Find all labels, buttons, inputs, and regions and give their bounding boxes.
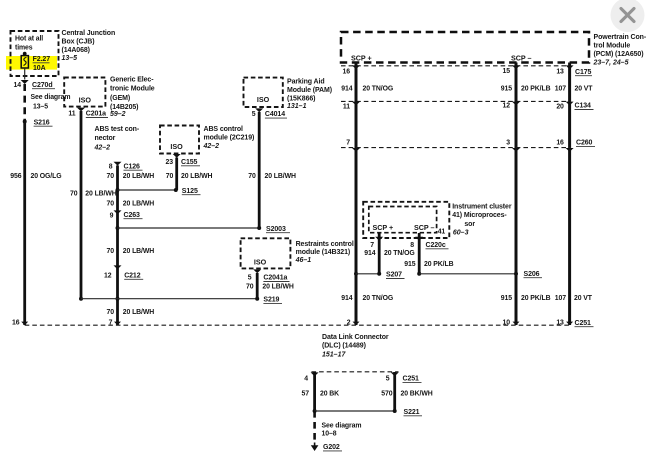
svg-text:20 LB/WH: 20 LB/WH bbox=[265, 173, 296, 180]
splice S216 bbox=[23, 119, 53, 126]
svg-text:Module (PAM): Module (PAM) bbox=[287, 87, 332, 94]
svg-text:70: 70 bbox=[248, 173, 256, 180]
svg-text:11: 11 bbox=[343, 103, 350, 110]
label Parking Aid Module (PAM) bbox=[287, 78, 332, 109]
svg-text:11: 11 bbox=[68, 111, 75, 118]
svg-text:20 PK/LB: 20 PK/LB bbox=[521, 295, 551, 302]
splice S125 bbox=[116, 188, 201, 195]
svg-text:915: 915 bbox=[501, 86, 512, 93]
module Instrument cluster outer box bbox=[363, 202, 449, 238]
svg-text:20 OG/LG: 20 OG/LG bbox=[31, 173, 62, 180]
junction on S219 line bbox=[116, 297, 120, 301]
svg-text:trol Module: trol Module bbox=[594, 43, 631, 50]
svg-text:ISO: ISO bbox=[257, 95, 270, 104]
svg-text:8: 8 bbox=[109, 163, 113, 170]
svg-text:20 BK/WH: 20 BK/WH bbox=[401, 390, 433, 397]
svg-text:C212: C212 bbox=[124, 272, 141, 279]
svg-text:C251: C251 bbox=[575, 320, 592, 327]
svg-text:10–8: 10–8 bbox=[322, 431, 337, 438]
svg-text:13–5: 13–5 bbox=[62, 55, 78, 62]
svg-text:(PCM) (12A650): (PCM) (12A650) bbox=[594, 51, 644, 58]
module PAM box bbox=[244, 78, 283, 107]
svg-text:C251: C251 bbox=[403, 376, 420, 383]
svg-text:Data Link Connector: Data Link Connector bbox=[322, 334, 389, 341]
svg-text:570: 570 bbox=[381, 390, 392, 397]
highlight band bbox=[6, 56, 57, 70]
pin 11 C134 bbox=[343, 102, 360, 111]
close button X bbox=[611, 0, 645, 32]
svg-text:16: 16 bbox=[556, 139, 564, 146]
pin 15 PCM bbox=[503, 65, 520, 75]
svg-text:times: times bbox=[15, 45, 33, 52]
svg-text:20 BK: 20 BK bbox=[320, 390, 339, 397]
svg-text:5: 5 bbox=[386, 376, 390, 383]
svg-text:915: 915 bbox=[501, 295, 512, 302]
wire 57 20 BK bbox=[302, 372, 340, 411]
svg-text:20 TN/OG: 20 TN/OG bbox=[363, 295, 394, 302]
svg-text:57: 57 bbox=[302, 390, 310, 397]
svg-text:12: 12 bbox=[104, 272, 112, 279]
wire cluster 914 20 TN/OG bbox=[364, 233, 414, 274]
svg-text:ISO: ISO bbox=[254, 258, 267, 267]
svg-text:70: 70 bbox=[166, 173, 174, 180]
svg-text:23: 23 bbox=[166, 159, 174, 166]
svg-text:14: 14 bbox=[14, 82, 22, 89]
connector C251 lower line bbox=[312, 372, 422, 383]
svg-text:20 LB/WH: 20 LB/WH bbox=[181, 173, 212, 180]
label Powertrain Control Module (PCM) bbox=[593, 34, 647, 66]
svg-text:15: 15 bbox=[503, 68, 511, 75]
splice S206 bbox=[417, 271, 542, 278]
svg-text:C134: C134 bbox=[575, 103, 592, 110]
svg-text:151–17: 151–17 bbox=[322, 352, 346, 359]
svg-text:70: 70 bbox=[70, 190, 78, 197]
svg-text:ISO: ISO bbox=[79, 95, 92, 104]
connector C260 line bbox=[341, 140, 595, 148]
label Restraints control module (14B321) bbox=[295, 241, 354, 264]
svg-text:914: 914 bbox=[341, 86, 352, 93]
pin 4 DLC lower bbox=[304, 372, 318, 382]
svg-text:914: 914 bbox=[364, 250, 375, 257]
pin 3 C260 bbox=[506, 139, 520, 151]
wire label 70 20 LB/WH below S2003 bbox=[107, 248, 155, 255]
module Restraints control box bbox=[241, 238, 291, 268]
svg-text:SCP –: SCP – bbox=[414, 223, 434, 232]
connector C4014 pin 5 bbox=[252, 108, 287, 118]
svg-text:5: 5 bbox=[248, 275, 252, 282]
svg-text:131–1: 131–1 bbox=[287, 103, 307, 110]
svg-text:20 LB/WH: 20 LB/WH bbox=[123, 173, 154, 180]
label See diagram 13-5 bbox=[31, 94, 71, 110]
fuse F2.27 10A bbox=[21, 52, 50, 80]
svg-text:Box (CJB): Box (CJB) bbox=[62, 39, 95, 46]
pin 5 DLC lower bbox=[386, 372, 399, 382]
connector C251 DLC top line bbox=[25, 320, 594, 327]
svg-text:46–1: 46–1 bbox=[295, 257, 312, 264]
svg-text:ISO: ISO bbox=[170, 142, 183, 151]
svg-text:S219: S219 bbox=[263, 297, 279, 304]
svg-text:20 PK/LB: 20 PK/LB bbox=[424, 261, 454, 268]
svg-text:module (14B321): module (14B321) bbox=[296, 249, 351, 256]
svg-text:20 VT: 20 VT bbox=[575, 86, 594, 93]
module ABS control box bbox=[160, 126, 199, 154]
wire cluster 915 20 PK/LB bbox=[404, 233, 453, 274]
wire 956 20 OG/LG bbox=[10, 120, 61, 325]
svg-text:sor: sor bbox=[464, 221, 475, 228]
svg-text:70: 70 bbox=[107, 309, 115, 316]
connector C134 line bbox=[341, 101, 594, 109]
svg-text:70: 70 bbox=[107, 201, 115, 208]
pin 16 PCM bbox=[343, 65, 360, 75]
svg-text:Hot at all: Hot at all bbox=[15, 35, 43, 42]
pin 7 C260 bbox=[346, 139, 360, 151]
svg-text:C270d: C270d bbox=[32, 82, 53, 89]
splice S207 bbox=[354, 272, 405, 279]
label ABS control module (2C219) bbox=[203, 126, 255, 150]
label Instrument cluster Microprocessor bbox=[452, 203, 512, 236]
svg-text:Central Junction: Central Junction bbox=[62, 30, 116, 37]
svg-text:Restraints control: Restraints control bbox=[296, 241, 354, 248]
bus wire 914 20 TN/OG bbox=[341, 63, 393, 326]
svg-text:C155: C155 bbox=[181, 159, 198, 166]
svg-text:42–2: 42–2 bbox=[203, 143, 220, 150]
svg-text:914: 914 bbox=[341, 295, 352, 302]
connector C263 pin 9 bbox=[110, 210, 143, 219]
wire GEM 70 20 LB/WH bbox=[70, 111, 117, 299]
label Generic Electronic Module (GEM) bbox=[110, 77, 155, 118]
connector C155 pin 23 bbox=[166, 154, 200, 166]
pin 16 C260 bbox=[556, 139, 573, 151]
connector C220c pins 7 8 bbox=[370, 237, 448, 249]
svg-text:C263: C263 bbox=[124, 212, 141, 219]
svg-text:915: 915 bbox=[404, 261, 415, 268]
svg-text:8: 8 bbox=[410, 242, 414, 249]
svg-text:20 LB/WH: 20 LB/WH bbox=[85, 190, 116, 197]
svg-text:60–3: 60–3 bbox=[453, 230, 469, 237]
splice S219 bbox=[79, 297, 282, 304]
svg-text:70: 70 bbox=[107, 248, 115, 255]
svg-text:16: 16 bbox=[343, 69, 351, 76]
connector C201a pin 11 bbox=[68, 108, 108, 118]
wire dashed C270d to S216 bbox=[23, 84, 26, 120]
wire PAM 70 20 LB/WH bbox=[248, 112, 296, 228]
svg-text:SCP –: SCP – bbox=[511, 54, 531, 63]
svg-text:(14A068): (14A068) bbox=[62, 47, 90, 54]
svg-text:See diagram: See diagram bbox=[322, 422, 362, 429]
svg-text:70: 70 bbox=[246, 283, 254, 290]
svg-text:Generic Elec-: Generic Elec- bbox=[110, 77, 154, 84]
svg-text:(GEM): (GEM) bbox=[110, 95, 130, 102]
svg-text:23–7, 24–5: 23–7, 24–5 bbox=[593, 60, 629, 67]
svg-text:(DLC) (14489): (DLC) (14489) bbox=[322, 343, 366, 350]
svg-text:(15K866): (15K866) bbox=[287, 95, 315, 102]
svg-text:C260: C260 bbox=[576, 140, 593, 147]
svg-text:107: 107 bbox=[555, 86, 566, 93]
label See diagram 10-8 bbox=[322, 422, 362, 437]
svg-text:2: 2 bbox=[347, 320, 351, 327]
svg-text:module (2C219): module (2C219) bbox=[204, 134, 255, 141]
connector C2041a pin 5 bbox=[248, 269, 290, 281]
svg-text:C175: C175 bbox=[575, 69, 592, 76]
svg-text:107: 107 bbox=[555, 295, 566, 302]
bus labels lower 915 20 PK/LB bbox=[501, 295, 551, 302]
svg-text:3: 3 bbox=[506, 139, 510, 146]
svg-text:956: 956 bbox=[10, 173, 21, 180]
bus wire 915 20 PK/LB bbox=[501, 63, 551, 326]
instrument cluster inner box bbox=[369, 207, 437, 233]
svg-text:42–2: 42–2 bbox=[94, 144, 111, 151]
svg-text:10: 10 bbox=[503, 320, 511, 327]
svg-text:C4014: C4014 bbox=[265, 111, 285, 118]
wire 570 20 BK/WH bbox=[381, 372, 432, 411]
svg-text:S216: S216 bbox=[34, 119, 50, 126]
svg-text:20 TN/OG: 20 TN/OG bbox=[363, 86, 394, 93]
bus wire 107 20 VT bbox=[555, 63, 593, 326]
svg-text:20 LB/WH: 20 LB/WH bbox=[262, 283, 293, 290]
pin 7 at DLC bbox=[109, 320, 121, 327]
pin 20 C134 bbox=[556, 102, 573, 111]
svg-text:20 LB/WH: 20 LB/WH bbox=[123, 309, 154, 316]
connector C270d pin 14 bbox=[14, 80, 55, 89]
svg-text:nector: nector bbox=[95, 135, 116, 142]
bus labels lower 914 20 TN/OG bbox=[341, 295, 393, 302]
svg-text:S206: S206 bbox=[524, 271, 540, 278]
svg-text:20 LB/WH: 20 LB/WH bbox=[123, 248, 154, 255]
svg-text:tronic Module: tronic Module bbox=[110, 86, 155, 93]
splice S221 bbox=[313, 409, 422, 416]
svg-text:S221: S221 bbox=[404, 409, 420, 416]
label Hot at all times bbox=[15, 35, 43, 51]
module PCM box bbox=[341, 32, 589, 63]
splice S2003 bbox=[116, 226, 291, 233]
label Data Link Connector (DLC) bbox=[322, 334, 389, 359]
svg-text:13: 13 bbox=[556, 320, 564, 327]
pin 10 DLC bbox=[503, 320, 520, 327]
module CJB box (Central Junction Box) bbox=[11, 31, 59, 76]
svg-text:SCP +: SCP + bbox=[351, 53, 372, 62]
svg-text:4: 4 bbox=[304, 376, 308, 383]
bus labels lower 107 20 VT bbox=[555, 295, 593, 302]
svg-text:C126: C126 bbox=[124, 163, 141, 170]
connector C175 line bbox=[341, 66, 592, 76]
svg-text:C220c: C220c bbox=[426, 242, 446, 249]
pin 12 C134 bbox=[503, 102, 520, 110]
svg-text:ABS control: ABS control bbox=[204, 126, 244, 133]
wire restraints 70 20 LB/WH bbox=[246, 273, 294, 299]
pin 13 PCM bbox=[556, 65, 573, 75]
svg-text:S207: S207 bbox=[386, 272, 402, 279]
svg-text:5: 5 bbox=[252, 111, 256, 118]
connector C126 pin 8 bbox=[109, 162, 143, 171]
svg-text:Instrument cluster: Instrument cluster bbox=[452, 203, 512, 210]
svg-text:20 PK/LB: 20 PK/LB bbox=[521, 86, 551, 93]
svg-text:13–5: 13–5 bbox=[33, 103, 48, 110]
svg-text:Powertrain Con-: Powertrain Con- bbox=[594, 34, 647, 41]
wire ABS test 70 20 LB/WH upper bbox=[107, 165, 155, 325]
svg-text:S125: S125 bbox=[182, 188, 198, 195]
svg-text:7: 7 bbox=[346, 139, 350, 146]
svg-text:20: 20 bbox=[556, 104, 564, 111]
svg-text:G202: G202 bbox=[323, 444, 340, 451]
svg-text:S2003: S2003 bbox=[266, 226, 286, 233]
svg-text:ABS test con-: ABS test con- bbox=[95, 126, 140, 133]
svg-text:41) Microproces-: 41) Microproces- bbox=[452, 212, 507, 219]
svg-text:16: 16 bbox=[12, 320, 20, 327]
svg-text:20 VT: 20 VT bbox=[574, 295, 593, 302]
label ABS test connector bbox=[94, 126, 140, 151]
wire label 70 20 LB/WH above DLC pin 7 bbox=[107, 309, 155, 316]
svg-text:59–2: 59–2 bbox=[110, 111, 126, 118]
svg-text:SCP +: SCP + bbox=[373, 223, 394, 232]
pin 2 DLC bbox=[347, 320, 360, 327]
pin 13 DLC bbox=[556, 320, 573, 327]
svg-text:C2041a: C2041a bbox=[263, 275, 287, 282]
wire C155 to S125 70 20 LB/WH bbox=[166, 158, 213, 191]
svg-text:13: 13 bbox=[556, 69, 564, 76]
svg-text:20 LB/WH: 20 LB/WH bbox=[123, 201, 154, 208]
svg-text:20 TN/OG: 20 TN/OG bbox=[384, 250, 415, 257]
wire dashed S221 to G202 bbox=[313, 411, 316, 442]
svg-text:C201a: C201a bbox=[86, 111, 106, 118]
svg-text:10A: 10A bbox=[33, 65, 46, 72]
svg-text:9: 9 bbox=[110, 213, 114, 220]
pin 16 at DLC bbox=[12, 320, 28, 327]
connector C212 pin 12 bbox=[104, 265, 143, 279]
svg-text:7: 7 bbox=[370, 242, 374, 249]
ground G202 bbox=[311, 443, 342, 452]
svg-text:12: 12 bbox=[503, 103, 511, 110]
svg-text:70: 70 bbox=[107, 173, 115, 180]
svg-text:F2.27: F2.27 bbox=[33, 56, 51, 63]
label Central Junction Box (CJB) bbox=[62, 30, 116, 62]
svg-text:41: 41 bbox=[438, 229, 446, 236]
module GEM box bbox=[64, 78, 105, 107]
wire label 70 20 LB/WH below S125 bbox=[107, 201, 155, 208]
svg-text:Parking Aid: Parking Aid bbox=[287, 78, 325, 85]
